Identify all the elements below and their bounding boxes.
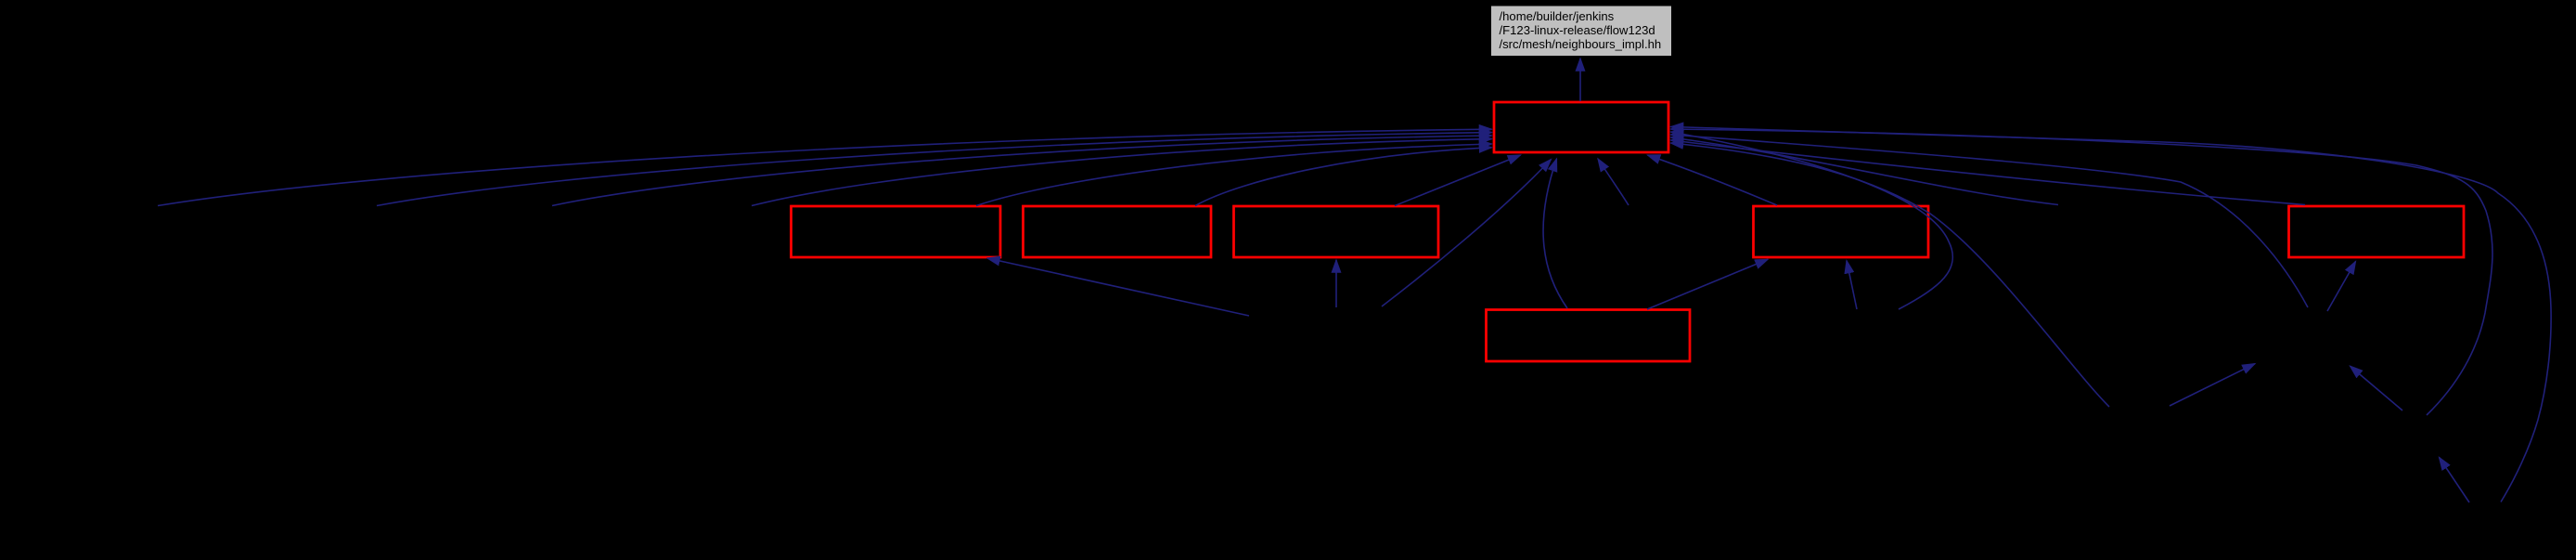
- red node F: [1487, 310, 1691, 362]
- red node E: [2289, 206, 2465, 257]
- edge BN1->A: [987, 258, 1249, 316]
- edge HN1->main: [1671, 135, 2309, 307]
- edge RN5->main (outer sweep R1): [1671, 127, 2552, 502]
- edge F->D: [1647, 259, 1768, 309]
- gray title node: [1491, 7, 1671, 57]
- edge H2->main: [377, 133, 1492, 206]
- edge HN3->HN1: [2170, 364, 2255, 406]
- red node D: [1754, 206, 1929, 257]
- edge H4->main: [752, 139, 1492, 206]
- svg-text:/home/builder/jenkins: /home/builder/jenkins: [1500, 9, 1615, 23]
- edge C->main: [1395, 155, 1521, 206]
- edge BN1->C: [1335, 260, 1337, 307]
- edge HN2->HN1: [2351, 366, 2403, 410]
- main red node: [1494, 102, 1668, 152]
- edge HN3->main: [1671, 143, 2110, 407]
- edge B->main: [1195, 148, 1492, 206]
- edge RN5->HN2: [2440, 458, 2470, 503]
- svg-text:/F123-linux-release/flow123d: /F123-linux-release/flow123d: [1500, 23, 1655, 37]
- edge H1->main: [158, 129, 1492, 205]
- edge BN1->main: [1382, 160, 1552, 307]
- edge H5->main: [1598, 159, 1629, 205]
- edge main->gray: [1579, 59, 1581, 101]
- red node B: [1024, 206, 1212, 257]
- edge F->main (left bulge): [1543, 159, 1567, 308]
- red node A: [792, 206, 1001, 257]
- edge BN2->main (right bulge arc): [1671, 132, 1953, 309]
- edge E->main: [1671, 140, 2306, 205]
- edge HN1->E: [2327, 262, 2356, 312]
- edge D->main: [1648, 155, 1778, 205]
- edge H6->main: [1671, 137, 2059, 205]
- edge A->main: [976, 144, 1492, 206]
- edge BN2->D: [1847, 261, 1857, 309]
- svg-text:/src/mesh/neighbours_impl.hh: /src/mesh/neighbours_impl.hh: [1500, 37, 1662, 51]
- edge HN2->main (inner sweep R2): [1671, 129, 2492, 415]
- red node C: [1234, 206, 1439, 257]
- edge H3->main: [552, 136, 1492, 206]
